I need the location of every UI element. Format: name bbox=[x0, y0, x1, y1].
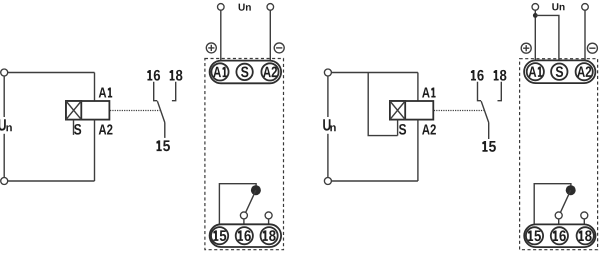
pin label A2 bbox=[422, 124, 436, 134]
junction dot on A1 wire bbox=[533, 13, 538, 18]
wire left rail upper segment bbox=[3, 76, 5, 117]
supply terminal bottom-left bbox=[324, 178, 331, 185]
actuator dashed link coil to contact bbox=[110, 110, 160, 112]
contact common lead 15 bbox=[488, 123, 490, 140]
NC contact seat over 16 bbox=[555, 212, 562, 226]
contact lever (common) bbox=[157, 101, 164, 122]
terminal 16 bbox=[236, 227, 253, 244]
contact common lead 15 bbox=[164, 123, 166, 138]
terminal group top stadium bbox=[524, 60, 595, 83]
pin label A1 bbox=[99, 88, 113, 98]
wire branch to S input bbox=[368, 73, 397, 136]
polarity symbol - bbox=[274, 43, 284, 53]
relay coil K2 with control input S bbox=[390, 101, 433, 120]
contact lever bbox=[561, 190, 571, 212]
terminal group bottom stadium bbox=[210, 224, 282, 247]
contact fixed terminal 18 (NO) bbox=[498, 82, 502, 101]
actuator dashed link coil to contact bbox=[434, 110, 484, 112]
NO contact seat over 18 bbox=[581, 212, 588, 226]
control lead S (floating) bbox=[73, 120, 75, 135]
NO contact seat over 18 bbox=[265, 212, 272, 226]
wire top rail bbox=[331, 72, 418, 74]
terminal 15 bbox=[526, 227, 543, 244]
supply terminal left bbox=[532, 4, 539, 11]
contact fixed terminal 18 (NO) bbox=[172, 82, 176, 101]
label Un bbox=[239, 4, 251, 11]
supply terminal bottom-left bbox=[1, 178, 8, 185]
internal contact wire 15 to pivot bbox=[219, 184, 256, 227]
contact fixed terminal 16 (NC) bbox=[478, 82, 482, 101]
supply terminal right bbox=[267, 4, 274, 11]
supply terminal top-left bbox=[324, 69, 331, 76]
wire bottom rail bbox=[331, 180, 418, 182]
contact pivot (filled) bbox=[251, 185, 261, 195]
value label Un (supply voltage) bbox=[0, 119, 12, 131]
wire bottom rail bbox=[8, 180, 95, 182]
terminal A2 bbox=[576, 63, 593, 80]
pin label 15 bbox=[156, 140, 170, 151]
wire to A2 bbox=[269, 10, 271, 63]
wire A2 lead down from coil bbox=[94, 120, 96, 181]
pin label 16 bbox=[471, 70, 484, 81]
contact lever (common) bbox=[481, 101, 489, 122]
terminal S bbox=[236, 64, 252, 80]
wire to A1 bbox=[220, 10, 222, 63]
pin label S bbox=[399, 124, 406, 135]
value label Un (supply voltage) bbox=[323, 119, 336, 131]
terminal A2 bbox=[261, 63, 278, 80]
terminal group top stadium bbox=[210, 61, 282, 84]
wire A1 lead down to coil bbox=[94, 73, 96, 102]
contact fixed terminal 16 (NC) bbox=[154, 82, 158, 101]
wire left rail upper segment bbox=[327, 76, 329, 117]
polarity symbol - bbox=[587, 43, 597, 53]
pin label A2 bbox=[99, 124, 113, 134]
wire A2 lead down from coil bbox=[417, 120, 419, 181]
pin label S bbox=[74, 124, 81, 135]
contact lever bbox=[246, 190, 256, 212]
supply terminal right bbox=[582, 4, 589, 11]
terminal A1 bbox=[211, 63, 228, 80]
relay coil K1 with control input S bbox=[66, 101, 109, 120]
label Un bbox=[552, 3, 564, 10]
terminal group bottom stadium bbox=[524, 224, 595, 247]
terminal A1 bbox=[527, 63, 544, 80]
polarity symbol + bbox=[206, 43, 216, 53]
terminal S bbox=[551, 63, 567, 79]
terminal 18 bbox=[577, 227, 594, 244]
terminal 16 bbox=[551, 227, 568, 244]
terminal 18 bbox=[261, 227, 278, 244]
pin label 15 bbox=[482, 141, 496, 152]
contact pivot (filled) bbox=[566, 185, 576, 195]
control lead S wired bbox=[397, 120, 399, 136]
supply terminal top-left bbox=[1, 69, 8, 76]
module outline (dashed) bbox=[205, 59, 284, 250]
pin label A1 bbox=[422, 88, 436, 98]
supply terminal left bbox=[218, 4, 225, 11]
wire left rail lower segment bbox=[3, 134, 5, 178]
wire to A2 bbox=[584, 10, 586, 63]
wire left rail lower segment bbox=[327, 134, 329, 178]
terminal 15 bbox=[211, 227, 228, 244]
internal contact wire 15 to pivot bbox=[534, 184, 571, 227]
module outline (dashed) bbox=[520, 59, 598, 250]
wire branch to S terminal bbox=[535, 15, 559, 63]
wire A1 lead down to coil bbox=[417, 73, 419, 102]
NC contact seat over 16 bbox=[240, 212, 247, 226]
pin label 18 bbox=[170, 70, 183, 81]
pin label 16 bbox=[147, 70, 160, 81]
pin label 18 bbox=[494, 70, 507, 81]
polarity symbol + bbox=[521, 43, 531, 53]
wire to A1 bbox=[534, 10, 536, 63]
wire top rail bbox=[8, 72, 95, 74]
